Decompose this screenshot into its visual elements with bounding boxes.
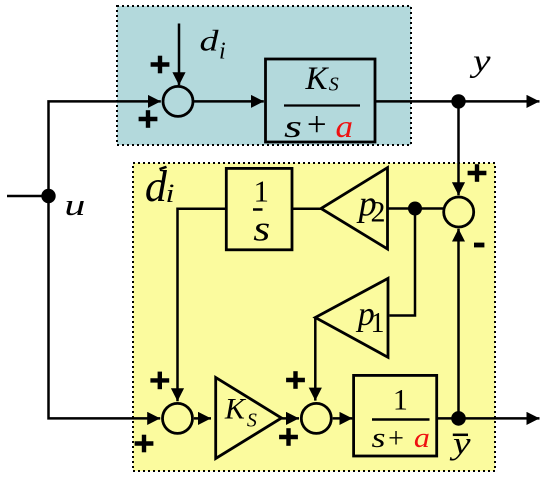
gain Ks (triangle) (216, 378, 282, 459)
plant box (blue dotted) (117, 6, 411, 145)
summing junction S2 (observer input sum) (163, 403, 193, 433)
output arrow y (459, 100, 540, 103)
wire: difference sum to gain p2 line (388, 207, 444, 210)
svg-text:K: K (224, 393, 247, 426)
svg-text:s: s (372, 423, 386, 454)
disturbance arrow d_i into S1 (178, 24, 181, 86)
svg-text:s: s (253, 208, 270, 248)
svg-text:a: a (414, 423, 430, 454)
svg-text:i: i (166, 179, 175, 208)
observer box (yellow dotted) (133, 163, 495, 471)
svg-text:1: 1 (254, 174, 270, 209)
svg-text:1: 1 (371, 308, 385, 339)
wire: y node down to difference sum (457, 101, 460, 195)
wire: 1/(s+a) to node ybar (437, 417, 459, 420)
svg-text:s: s (284, 108, 302, 144)
svg-text:S: S (329, 73, 339, 95)
wire: S2 to gain Ks (194, 417, 211, 420)
label ybar (453, 434, 468, 437)
plus sign (difference sum, top) (468, 164, 487, 182)
summing junction (y minus ybar) (444, 197, 474, 227)
minus sign (difference sum, bottom) (474, 243, 484, 248)
svg-text:y: y (469, 42, 491, 78)
svg-text:K: K (305, 61, 330, 97)
summing junction S3 (301, 403, 331, 433)
svg-text:d: d (145, 162, 168, 211)
svg-text:y: y (449, 425, 471, 461)
block Ks/(s+a) (plant transfer function) (266, 59, 376, 142)
wire: u up to plant summing junction S1 (49, 101, 161, 197)
wire: u down to observer summing junction S2 (49, 195, 161, 418)
plus sign (S2 upper input) (150, 372, 169, 390)
gain p1 (triangle) (315, 278, 388, 357)
svg-text:a: a (336, 108, 354, 144)
wire: p1 output down into sum S3 (314, 318, 317, 401)
wire: plant block to node y (375, 100, 459, 103)
svg-text:1: 1 (393, 383, 408, 416)
plus sign (S3 left input) (279, 428, 298, 446)
wire: S3 to block 1/(s+a) (333, 417, 353, 420)
wire: ybar node up into difference sum (minus input) (457, 229, 460, 419)
hat accent (160, 167, 167, 169)
wire: u input from left edge (7, 195, 49, 198)
svg-text:u: u (64, 187, 85, 222)
svg-text:+: + (388, 424, 404, 455)
plus sign (S2 left input) (135, 435, 154, 453)
wire: 1/s output left and down into observer sum S2 (178, 209, 227, 402)
svg-text:d: d (200, 24, 220, 57)
node y (junction dot) (451, 94, 465, 108)
block 1/s (integrator) (226, 168, 292, 249)
svg-text:S: S (247, 410, 257, 432)
plus sign (S1 left input) (139, 110, 158, 128)
node ybar (junction dot) (451, 411, 466, 426)
wire: p2 to block 1/s (292, 207, 321, 210)
plus sign (S1 upper input) (151, 56, 170, 74)
svg-text:2: 2 (371, 196, 386, 229)
summing junction S1 (plant input sum) (163, 86, 193, 116)
node u (junction dot) (41, 189, 55, 203)
node A (p1/p2 pickoff dot) (408, 202, 422, 216)
plus sign (S3 upper input) (286, 371, 305, 389)
svg-text:i: i (219, 39, 226, 65)
wire: node A down and left into gain p1 (390, 209, 416, 316)
output arrow ybar (459, 417, 540, 420)
block 1/(s+a) (observer model) (354, 375, 437, 456)
gain p2 (triangle) (321, 168, 388, 249)
wire: S1 to plant block (194, 100, 264, 103)
svg-text:+: + (307, 105, 327, 144)
wire: Ks to sum S3 (282, 417, 300, 420)
